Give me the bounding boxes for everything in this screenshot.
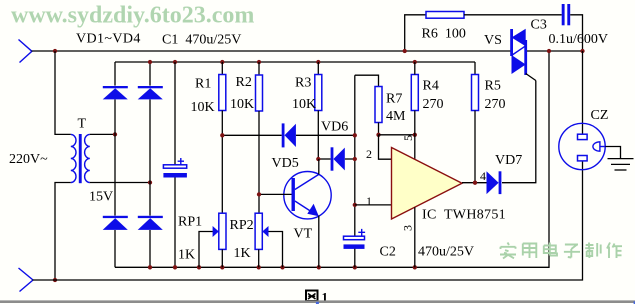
- wire: secondary bottom to bridge node B: [90, 182, 150, 184]
- transformer T core: [79, 134, 82, 183]
- node: rail2 x=222 (R1): [220, 60, 224, 64]
- diode VD4: [138, 216, 163, 230]
- RP2 wiper: [262, 226, 282, 267]
- wire: bridge right column x=150: [149, 62, 151, 267]
- svg-text:R5: R5: [485, 79, 501, 94]
- svg-text:R3: R3: [295, 76, 311, 91]
- svg-text:VD1~VD4: VD1~VD4: [76, 32, 141, 47]
- diode VD1: [103, 86, 128, 99]
- resistor R1: [219, 62, 226, 213]
- svg-text:10K: 10K: [230, 97, 254, 112]
- thyristor VS (triac): [510, 29, 536, 81]
- node: triac MT1 / inner-rail column: [547, 49, 551, 53]
- ground: [605, 147, 633, 171]
- node: triac MT1 / CZ column: [580, 49, 584, 53]
- transformer T primary winding: [71, 134, 76, 182]
- svg-text:4: 4: [480, 169, 486, 183]
- potentiometer RP1: [219, 213, 226, 267]
- node: R6 tap on top rail: [403, 49, 407, 53]
- transistor VT: [259, 172, 331, 219]
- wire: secondary top to bridge node A: [90, 133, 115, 135]
- wire: VD5 trigger wire y=135.3: [222, 134, 354, 136]
- wire: DC+ rail (y=62): [115, 61, 475, 63]
- wire: C1 column: [174, 62, 176, 267]
- input terminal top (arrow): [19, 40, 32, 63]
- diode VD2: [138, 86, 163, 99]
- resistor R7: [375, 87, 382, 135]
- node: rail2 x=175 (C1): [173, 60, 177, 64]
- svg-text:VD5: VD5: [272, 156, 299, 171]
- node: output / R5: [473, 181, 477, 185]
- svg-text:4M: 4M: [386, 109, 406, 124]
- capacitor C2 (polarized): [344, 229, 366, 267]
- node: inner rail x=282.5: [280, 265, 284, 269]
- svg-text:270: 270: [423, 97, 444, 112]
- resistor R6 (snubber): [405, 12, 562, 52]
- wire: VT collector up to VD6 node: [318, 159, 320, 174]
- svg-text:5: 5: [401, 135, 415, 141]
- wire: VD7 to triac gate: [502, 81, 536, 183]
- svg-text:C2: C2: [380, 245, 396, 260]
- node: trigger x VD6: [353, 157, 357, 161]
- svg-text:IC TWH8751: IC TWH8751: [422, 208, 506, 223]
- svg-text:2: 2: [366, 147, 372, 161]
- node B: secondary bottom / VD2-VD4 column: [148, 180, 152, 184]
- svg-text:R4: R4: [423, 79, 439, 94]
- wire: IC output to VD7: [462, 182, 487, 184]
- svg-text:10K: 10K: [191, 100, 215, 115]
- wire: pin 5: [414, 135, 416, 160]
- wire: CZ top feed: [582, 51, 584, 134]
- wire: pin 2: [379, 135, 392, 159]
- svg-text:R2: R2: [236, 75, 252, 90]
- node: VD5 wire at R1 column: [220, 133, 224, 137]
- diode VD5: [282, 123, 296, 147]
- node: rail2 x=318 (R3): [316, 60, 320, 64]
- node: rail2 x=259 (R2): [257, 60, 261, 64]
- svg-text:R6 100: R6 100: [422, 27, 466, 42]
- svg-text:470u/25V: 470u/25V: [418, 245, 474, 260]
- svg-text:220V~: 220V~: [9, 152, 48, 167]
- node: inner rail x=222: [220, 265, 224, 269]
- transformer T secondary winding: [85, 134, 90, 182]
- svg-text:VT: VT: [294, 227, 313, 242]
- svg-text:T: T: [78, 117, 87, 132]
- svg-text:RP2: RP2: [230, 218, 254, 233]
- wire: trigger column x=354.8: [354, 75, 356, 236]
- node A: secondary top / VD1-VD3 column: [113, 132, 117, 136]
- input terminal bottom (arrow): [19, 268, 34, 292]
- wire: bridge left column x=115: [114, 62, 116, 267]
- svg-text:VD6: VD6: [321, 120, 348, 135]
- resistor R3: [315, 62, 322, 159]
- resistor R4: [411, 62, 418, 135]
- node: R4 bottom / pin5: [413, 133, 417, 137]
- svg-text:1K: 1K: [178, 248, 195, 263]
- RP1 wiper: [199, 226, 219, 267]
- watermark bottom 实用电子制作: [500, 243, 622, 259]
- node: top-left junction: [53, 49, 57, 53]
- node: R7 bottom / Vcc: [376, 133, 380, 137]
- wire: top rail (220V live): [32, 50, 583, 52]
- node: trigger x VD5: [353, 133, 357, 137]
- svg-text:R7: R7: [386, 92, 402, 107]
- svg-text:www.sydzdiy.6to23.com: www.sydzdiy.6to23.com: [11, 3, 254, 29]
- svg-text:10K: 10K: [292, 97, 316, 112]
- socket CZ: [559, 123, 606, 169]
- node: trigger x pin1: [353, 203, 357, 207]
- resistor R5: [472, 62, 479, 183]
- diode VD3: [103, 216, 128, 230]
- wire: VD6 wire y=159: [318, 158, 355, 160]
- potentiometer RP2: [255, 213, 262, 267]
- wire: Vcc wire to R4: [379, 134, 415, 136]
- node: inner rail x=318.8: [317, 265, 321, 269]
- node: outer rail left junction: [53, 278, 57, 282]
- svg-text:1K: 1K: [234, 246, 251, 261]
- caption 图 1: [306, 290, 328, 304]
- node: inner rail x=150: [148, 265, 152, 269]
- wire: inner bottom rail (DC-): [115, 51, 549, 267]
- node: rail2 x=415 (R4): [413, 60, 417, 64]
- wire: R7 top loop: [355, 75, 379, 86]
- svg-text:VS: VS: [484, 33, 502, 48]
- node: rail2 x=150: [148, 60, 152, 64]
- svg-text:270: 270: [485, 97, 506, 112]
- diode VD7: [487, 171, 502, 194]
- svg-text:VD7: VD7: [495, 153, 522, 168]
- svg-text:C3: C3: [531, 18, 547, 33]
- wire: transformer primary bottom to outer rail: [55, 183, 71, 281]
- bottom separator line: [0, 301, 635, 304]
- svg-text:15V: 15V: [89, 190, 113, 205]
- wire: VT emitter down to inner rail: [318, 216, 320, 268]
- node: VT base (R2/RP2): [257, 192, 261, 196]
- svg-text:3: 3: [401, 225, 415, 231]
- node: R3/VD6/VT collector: [316, 157, 320, 161]
- wire: outer bottom rail (neutral): [33, 161, 583, 280]
- svg-text:1: 1: [366, 194, 372, 208]
- resistor R2: [256, 62, 263, 213]
- wire: pin 3: [414, 207, 416, 267]
- svg-text:RP1: RP1: [178, 215, 202, 230]
- wire: pin 1: [355, 204, 392, 206]
- capacitor C3: [562, 4, 583, 51]
- capacitor C1 (polarized): [163, 158, 187, 178]
- wire: left vertical to transformer primary top: [55, 51, 71, 134]
- node: inner rail x=414.8: [413, 265, 417, 269]
- svg-text:C1 470u/25V: C1 470u/25V: [162, 33, 241, 48]
- node: inner rail x=199: [197, 265, 201, 269]
- diode VD6: [331, 147, 345, 170]
- op-amp U1 IC TWH8751 triangle: [392, 148, 463, 220]
- node: inner rail x=258.7: [257, 265, 261, 269]
- node: inner rail x=354.8: [353, 265, 357, 269]
- svg-text:0.1u/600V: 0.1u/600V: [549, 32, 609, 47]
- svg-text:R1: R1: [195, 77, 211, 92]
- svg-text:CZ: CZ: [591, 108, 609, 123]
- node: inner rail x=175: [173, 265, 177, 269]
